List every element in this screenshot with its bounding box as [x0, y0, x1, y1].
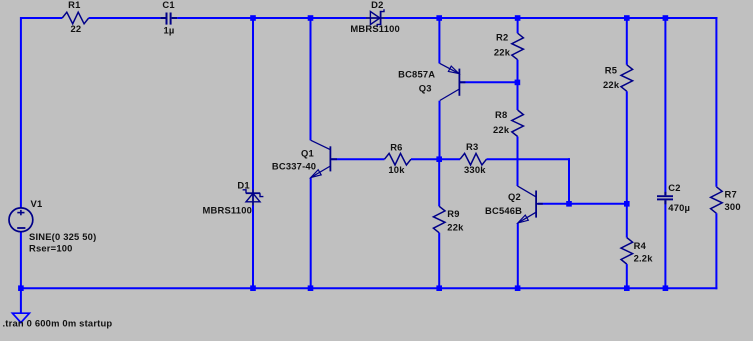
svg-text:R7: R7	[725, 189, 737, 200]
svg-text:BC857A: BC857A	[398, 69, 435, 80]
svg-text:BC337-40: BC337-40	[272, 160, 316, 171]
svg-text:SINE(0 325 50): SINE(0 325 50)	[29, 231, 96, 242]
svg-text:C1: C1	[162, 0, 174, 10]
svg-text:.tran 0 600m 0m startup: .tran 0 600m 0m startup	[3, 317, 113, 328]
svg-text:22k: 22k	[493, 124, 510, 135]
svg-text:MBRS1100: MBRS1100	[350, 23, 400, 34]
svg-text:V1: V1	[31, 198, 43, 209]
svg-text:300: 300	[725, 201, 741, 212]
svg-text:22: 22	[71, 23, 82, 34]
svg-text:D1: D1	[237, 180, 249, 191]
svg-text:R8: R8	[495, 109, 507, 120]
svg-text:2.2k: 2.2k	[634, 252, 654, 263]
svg-text:R2: R2	[496, 32, 508, 43]
svg-text:D2: D2	[371, 0, 383, 10]
svg-text:470µ: 470µ	[668, 202, 690, 213]
svg-text:Q3: Q3	[419, 82, 432, 93]
svg-text:R4: R4	[634, 240, 647, 251]
svg-text:22k: 22k	[603, 79, 620, 90]
svg-text:10k: 10k	[388, 164, 405, 175]
svg-text:BC546B: BC546B	[485, 205, 522, 216]
svg-text:330k: 330k	[464, 164, 486, 175]
svg-text:R6: R6	[390, 141, 402, 152]
svg-text:R9: R9	[447, 208, 459, 219]
svg-text:1µ: 1µ	[164, 24, 175, 35]
svg-text:Rser=100: Rser=100	[29, 243, 73, 254]
svg-text:R5: R5	[605, 65, 617, 76]
svg-text:R1: R1	[68, 0, 80, 10]
svg-text:22k: 22k	[494, 46, 511, 57]
svg-text:MBRS1100: MBRS1100	[203, 205, 253, 216]
svg-text:Q1: Q1	[301, 147, 314, 158]
svg-text:R3: R3	[466, 141, 478, 152]
svg-text:22k: 22k	[447, 221, 464, 232]
svg-text:Q2: Q2	[508, 191, 521, 202]
svg-text:C2: C2	[668, 182, 680, 193]
